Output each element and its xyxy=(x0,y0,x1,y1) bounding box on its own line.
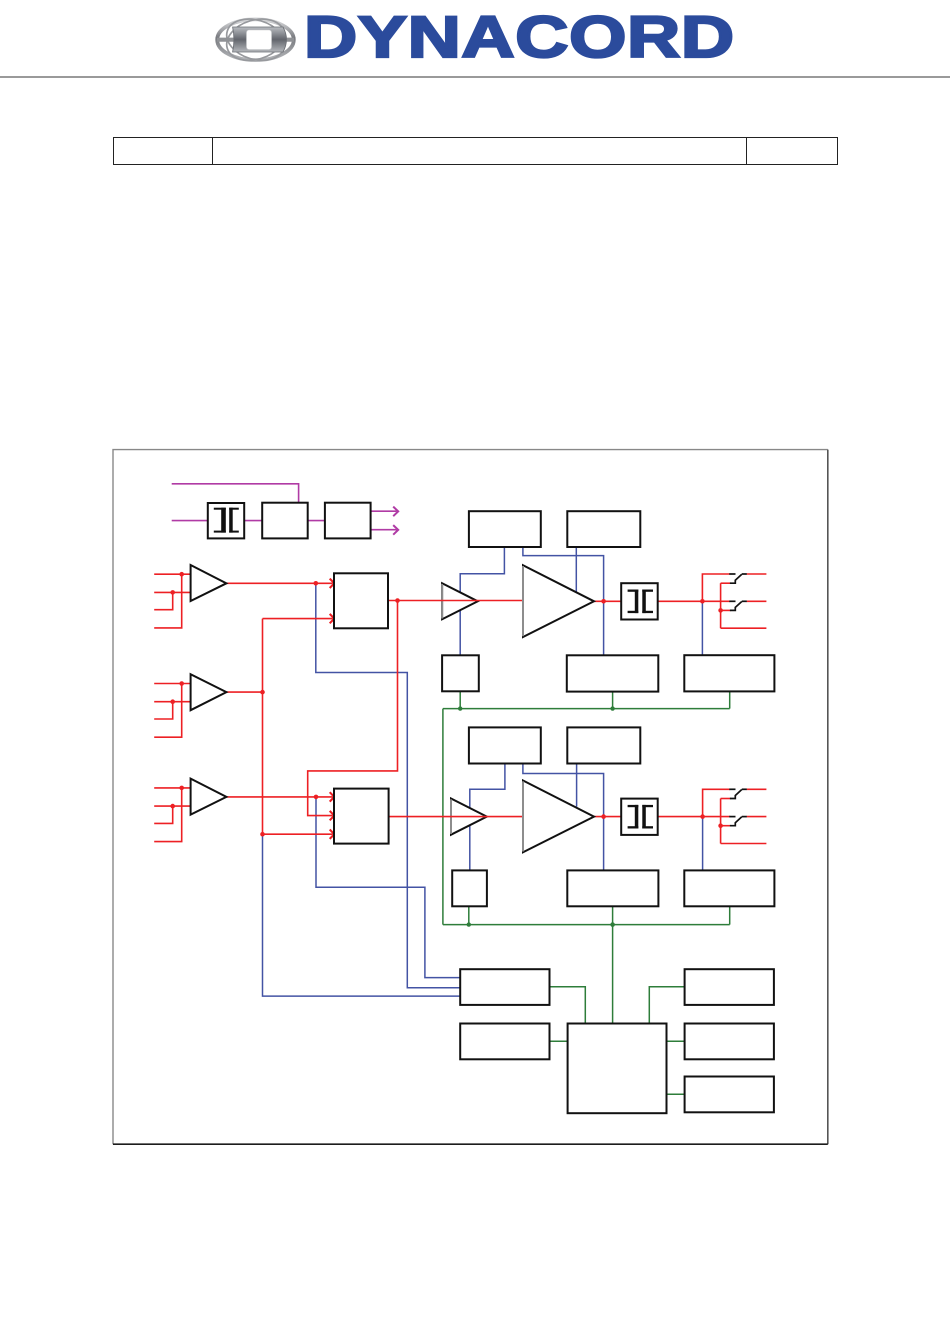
box limiter A xyxy=(469,511,541,547)
box regulator xyxy=(325,503,371,539)
wire output A2 xyxy=(747,600,767,602)
wire mixer M1 in 2 xyxy=(263,618,333,620)
wire bus channel A xyxy=(443,708,730,710)
box relay A xyxy=(684,655,774,691)
junction input 3 hot xyxy=(179,786,184,791)
wire mixer M2 in 3 xyxy=(263,833,333,835)
wire box C to controller xyxy=(649,987,684,1024)
junction amp A display tap xyxy=(601,599,606,604)
switch S1 output A1 xyxy=(729,574,747,583)
wire output A3 xyxy=(721,627,767,629)
box clip detect B xyxy=(567,727,640,763)
diagram frame xyxy=(113,450,828,1145)
wire amp U1 out to mixer M1 xyxy=(226,582,332,584)
wire display B to controller xyxy=(612,906,614,1023)
switch S3 output B1 xyxy=(729,789,747,798)
wire switch B2 lower feed xyxy=(721,825,731,827)
junction input 1 cold xyxy=(170,590,175,595)
wire mains sense top xyxy=(172,484,299,503)
junction input 2 cold xyxy=(170,699,175,704)
wire input 1 cold xyxy=(154,591,190,593)
green ground bus network xyxy=(443,691,730,1094)
wire PSU to regulator xyxy=(308,520,325,522)
junction output node B xyxy=(700,814,705,819)
wire T1 to PSU box xyxy=(244,520,262,522)
box B aux logic xyxy=(460,1024,549,1060)
box D fan xyxy=(685,1024,774,1060)
transformer T2 output A xyxy=(621,583,658,619)
wire mixer M1 out to amp A xyxy=(388,600,523,602)
logo globe xyxy=(206,8,326,78)
box relay B xyxy=(684,870,774,906)
wire input 1 hot xyxy=(154,573,190,575)
wire input 3 link cold xyxy=(154,806,173,823)
blue control wires under drivers (drawn first) xyxy=(460,547,505,870)
wire limiter A to display A xyxy=(523,547,604,655)
transformer T3 output B xyxy=(621,799,658,835)
wire amp U2 out xyxy=(226,691,262,693)
arrowhead mixer M2 in 1 xyxy=(330,792,335,801)
wire supply out 2 xyxy=(371,529,397,531)
box protect A xyxy=(442,655,479,691)
wire input 1 link cold xyxy=(154,592,173,609)
junction input 3 cold xyxy=(170,804,175,809)
box protect B xyxy=(452,870,487,906)
op-amp U3 input 3 xyxy=(191,779,227,815)
box display A xyxy=(567,655,659,691)
junction input 1 hot xyxy=(179,572,184,577)
wire input 2 bus vertical xyxy=(262,619,264,835)
box limiter B xyxy=(469,727,541,763)
wire output B1 xyxy=(747,788,767,790)
junction amp U2 out xyxy=(260,690,265,695)
junction switch A feed xyxy=(718,608,723,613)
wire mains input xyxy=(172,520,208,522)
junction green bus A protect xyxy=(458,706,462,710)
box E temp xyxy=(685,1077,774,1113)
wire box A to controller xyxy=(550,987,586,1024)
wire input 2 cold xyxy=(154,701,190,703)
wire output B top feed xyxy=(703,789,731,816)
driver U5 channel B xyxy=(451,799,487,835)
junction green bus B display xyxy=(610,922,615,927)
wire output B3 xyxy=(721,843,767,845)
box clip detect A xyxy=(567,511,640,547)
wire input 2 sense to box A xyxy=(263,834,461,996)
box C status xyxy=(685,969,774,1005)
junction output node A xyxy=(700,599,705,604)
switch S4 output B2 xyxy=(729,817,747,826)
junction mixer M2 in 1 sense xyxy=(314,795,319,800)
wire amp B out to relay B xyxy=(702,817,704,871)
wire relay A riser xyxy=(729,691,731,708)
wire switch A2 lower feed xyxy=(721,609,731,611)
wire input 3 hot xyxy=(154,787,190,789)
wire switch A lower feed riser xyxy=(720,583,722,628)
junction green bus A display xyxy=(610,706,614,710)
wire T2 to output node A xyxy=(658,600,730,602)
wire protect A drop xyxy=(459,691,461,708)
blue signal wires xyxy=(263,547,703,996)
wire amp A out to relay A xyxy=(701,601,703,655)
wire limiter A to driver rail xyxy=(460,547,504,655)
junction mixer M1 in 1 sense xyxy=(314,581,319,586)
wire bus channel B xyxy=(443,924,730,926)
wire input 1 link hot xyxy=(154,574,182,628)
wire mixer M2 out to amp B xyxy=(389,816,523,818)
wire switch B lower feed riser xyxy=(720,799,722,844)
arrowhead mixer M2 in 2 xyxy=(330,811,335,820)
box display B xyxy=(567,870,658,906)
op-amp U1 input 1 xyxy=(191,565,227,601)
junction mixer M1 out xyxy=(395,598,400,603)
wire output A top feed xyxy=(702,574,730,601)
wire display A drop xyxy=(612,692,614,709)
arrowhead mixer M1 in 2 xyxy=(330,614,335,623)
junction input 2 hot xyxy=(179,681,184,686)
box power supply xyxy=(262,503,308,539)
wire input 3 link hot xyxy=(154,788,182,842)
wire clip A to amp A xyxy=(575,547,577,592)
wire controller to box D xyxy=(667,1040,685,1042)
junction amp B display tap xyxy=(601,814,606,819)
transformer T1 (power) xyxy=(208,503,244,538)
mixer M1 (router channel A) xyxy=(334,573,388,628)
red signal wires xyxy=(154,574,766,844)
wire controller to box E xyxy=(667,1093,685,1095)
wire amp A out to T2 xyxy=(594,600,621,602)
box controller xyxy=(568,1024,667,1114)
wire box B to controller xyxy=(550,1040,568,1042)
junction mixer M2 in 3 xyxy=(260,832,265,837)
wire output B2 xyxy=(747,816,767,818)
wire supply out 1 xyxy=(371,510,397,512)
arrowhead mixer M2 in 3 xyxy=(330,830,335,839)
wire protect B drop xyxy=(468,906,470,924)
wire input 2 link hot xyxy=(154,684,182,738)
wire switch A1 lower feed xyxy=(721,582,731,584)
wire limiter B to display B xyxy=(523,764,604,871)
wire mixer M1 out to mixer M2 in 2 xyxy=(308,601,398,816)
wire output A1 xyxy=(747,573,767,575)
wire input 2 hot xyxy=(154,683,190,685)
arrowhead mixer M1 in 1 xyxy=(330,579,335,588)
box A sense logic xyxy=(460,969,549,1005)
wire amp B out to T3 xyxy=(594,816,621,818)
junction switch B feed xyxy=(718,823,723,828)
op-amp U2 input 2 xyxy=(191,674,227,710)
wire bus left riser xyxy=(442,709,444,925)
switch S2 output A2 xyxy=(729,601,747,610)
arrowhead supply out 2 xyxy=(393,525,398,535)
wire T3 to output node B xyxy=(658,816,730,818)
wire limiter B to driver rail xyxy=(470,764,505,871)
wire relay B riser xyxy=(729,906,731,924)
driver U4 channel A xyxy=(442,583,478,619)
junction green bus B protect xyxy=(467,922,471,926)
power amp B xyxy=(523,781,594,853)
wire amp U3 out to mixer M2 xyxy=(226,796,332,798)
wire input 3 cold xyxy=(154,805,190,807)
wire input A sense to box A xyxy=(316,583,460,987)
arrowhead supply out 1 xyxy=(393,507,398,517)
wire clip B to amp B xyxy=(576,764,578,807)
wire input B sense to box A xyxy=(316,797,460,978)
power amp A xyxy=(523,565,594,637)
wire input 2 link cold xyxy=(154,702,173,719)
wire switch B1 lower feed xyxy=(721,798,731,800)
mixer M2 (router channel B) xyxy=(334,789,389,844)
